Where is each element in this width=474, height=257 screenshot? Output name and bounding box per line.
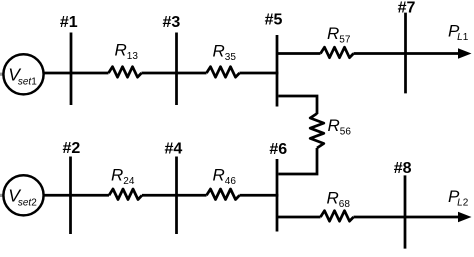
resistor R56 (vertical)	[310, 114, 351, 149]
wire V_set1 to bus 1 (top feeder, y=73)	[43, 72, 109, 75]
bus #8	[394, 160, 412, 249]
svg-text:#5: #5	[265, 12, 283, 29]
load arrow P_L1	[448, 22, 472, 59]
wire R24 to bus 4	[142, 194, 207, 197]
svg-text:#4: #4	[165, 141, 183, 158]
bus #3	[163, 14, 181, 105]
load arrow P_L2	[448, 187, 472, 222]
bus #4	[165, 141, 183, 235]
svg-text:#1: #1	[60, 14, 78, 31]
resistor R68	[321, 189, 354, 222]
voltage source V_set2	[3, 175, 43, 215]
bus #5	[265, 12, 283, 107]
wire bus 5 to R56 top jog	[278, 96, 317, 114]
bus #2	[63, 140, 81, 234]
wire R68 through bus 8 to load arrow	[354, 216, 460, 219]
clipped wire stub left of V_set2	[0, 194, 4, 197]
resistor R35	[207, 42, 240, 78]
wire V_set2 to bus 2 (bottom feeder, y=195)	[43, 194, 110, 197]
wire R56 bottom jog to bus 6	[278, 148, 317, 174]
resistor R13	[109, 41, 142, 78]
svg-text:#8: #8	[394, 160, 412, 177]
svg-text:#3: #3	[163, 14, 181, 31]
wire R13 to bus 3	[142, 72, 207, 75]
resistor R24	[109, 166, 142, 200]
clipped wire stub left of V_set1	[0, 73, 4, 76]
wire R57 through bus 7 to load arrow	[354, 52, 460, 55]
wire bus 6 to R68 (branch y=217)	[277, 216, 321, 219]
bus #6	[269, 141, 287, 232]
wire R46 to bus 6	[240, 194, 279, 197]
voltage source V_set1	[3, 54, 43, 94]
resistor R46	[207, 166, 240, 200]
wire R35 to bus 5	[240, 72, 279, 75]
svg-text:#7: #7	[398, 0, 416, 17]
svg-text:#2: #2	[63, 140, 81, 157]
svg-text:#6: #6	[269, 141, 287, 158]
wire bus 5 to R57 (branch y=53.5)	[277, 52, 321, 55]
bus #7	[398, 0, 416, 93]
resistor R57	[321, 24, 354, 58]
bus #1	[60, 14, 78, 105]
